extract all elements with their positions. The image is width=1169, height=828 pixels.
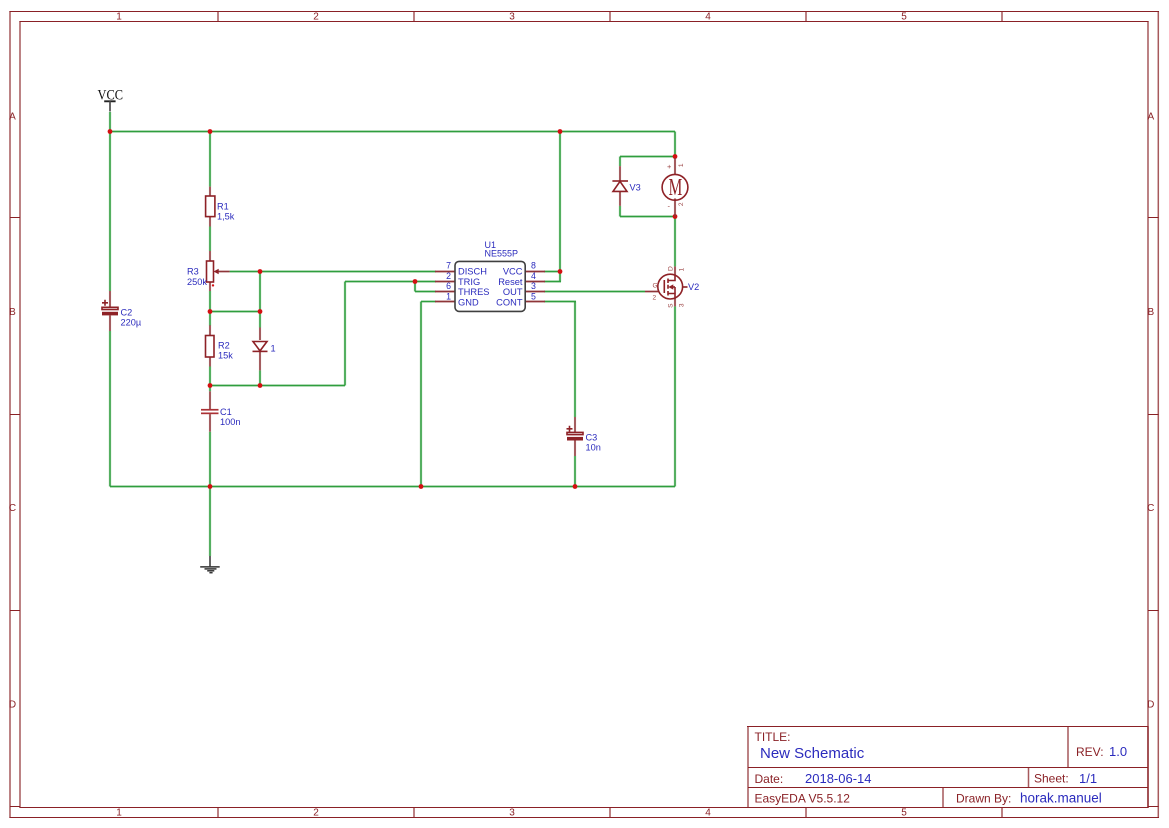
svg-text:New Schematic: New Schematic (760, 745, 865, 762)
svg-text:2: 2 (678, 202, 685, 206)
svg-text:Reset: Reset (498, 277, 523, 287)
svg-text:M: M (669, 175, 683, 201)
svg-text:D: D (9, 700, 16, 711)
svg-text:VCC: VCC (503, 267, 523, 277)
svg-text:D: D (1147, 700, 1154, 711)
svg-text:1: 1 (271, 344, 276, 354)
svg-text:1: 1 (678, 163, 685, 167)
svg-text:V2: V2 (688, 282, 699, 292)
svg-text:2: 2 (446, 271, 451, 281)
svg-text:-: - (668, 202, 671, 211)
svg-text:1: 1 (446, 291, 451, 301)
svg-text:6: 6 (446, 281, 451, 291)
svg-text:5: 5 (531, 291, 536, 301)
svg-text:R3: R3 (187, 267, 199, 277)
svg-text:3: 3 (531, 281, 536, 291)
svg-text:NE555P: NE555P (485, 249, 519, 259)
svg-text:220µ: 220µ (121, 318, 142, 328)
svg-text:CONT: CONT (496, 297, 523, 307)
svg-text:3: 3 (509, 808, 515, 819)
svg-text:100n: 100n (220, 417, 240, 427)
svg-text:2018-06-14: 2018-06-14 (805, 771, 872, 786)
svg-text:REV:: REV: (1076, 745, 1104, 759)
svg-text:TRIG: TRIG (458, 277, 480, 287)
svg-text:S: S (668, 303, 675, 308)
svg-text:4: 4 (531, 271, 536, 281)
svg-text:Date:: Date: (755, 772, 784, 786)
svg-text:2: 2 (653, 295, 657, 302)
svg-text:A: A (9, 112, 16, 123)
svg-text:R1: R1 (217, 202, 229, 212)
svg-text:C: C (1147, 503, 1154, 514)
svg-text:250k: 250k (187, 277, 207, 287)
svg-text:10n: 10n (586, 443, 601, 453)
svg-text:C2: C2 (121, 308, 133, 318)
svg-text:TITLE:: TITLE: (755, 730, 791, 744)
svg-text:1/1: 1/1 (1079, 771, 1097, 786)
svg-text:Drawn By:: Drawn By: (956, 792, 1011, 806)
svg-text:2: 2 (313, 808, 319, 819)
svg-text:R2: R2 (218, 341, 230, 351)
svg-text:Sheet:: Sheet: (1034, 772, 1069, 786)
svg-text:15k: 15k (218, 351, 233, 361)
svg-text:1,5k: 1,5k (217, 212, 235, 222)
svg-text:EasyEDA V5.5.12: EasyEDA V5.5.12 (755, 792, 851, 806)
svg-text:V3: V3 (630, 183, 641, 193)
svg-text:B: B (9, 307, 16, 318)
svg-text:THRES: THRES (458, 287, 490, 297)
svg-text:7: 7 (446, 261, 451, 271)
svg-text:5: 5 (901, 12, 907, 23)
svg-text:3: 3 (679, 303, 686, 307)
svg-text:1: 1 (116, 12, 122, 23)
svg-text:1.0: 1.0 (1109, 744, 1127, 759)
svg-text:A: A (1147, 112, 1154, 123)
svg-text:horak.manuel: horak.manuel (1020, 791, 1102, 806)
svg-text:DISCH: DISCH (458, 267, 487, 277)
svg-text:D: D (668, 266, 675, 271)
svg-text:4: 4 (705, 12, 711, 23)
svg-text:3: 3 (509, 12, 515, 23)
svg-text:1: 1 (116, 808, 122, 819)
svg-text:8: 8 (531, 261, 536, 271)
svg-text:C1: C1 (220, 407, 232, 417)
svg-text:2: 2 (313, 12, 319, 23)
svg-text:G: G (653, 283, 658, 290)
svg-text:+: + (667, 162, 672, 171)
svg-text:C: C (9, 503, 16, 514)
svg-text:C3: C3 (586, 433, 598, 443)
svg-text:OUT: OUT (503, 287, 523, 297)
svg-text:5: 5 (901, 808, 907, 819)
svg-text:1: 1 (679, 268, 686, 272)
svg-text:4: 4 (705, 808, 711, 819)
svg-text:B: B (1147, 307, 1154, 318)
svg-text:GND: GND (458, 297, 479, 307)
